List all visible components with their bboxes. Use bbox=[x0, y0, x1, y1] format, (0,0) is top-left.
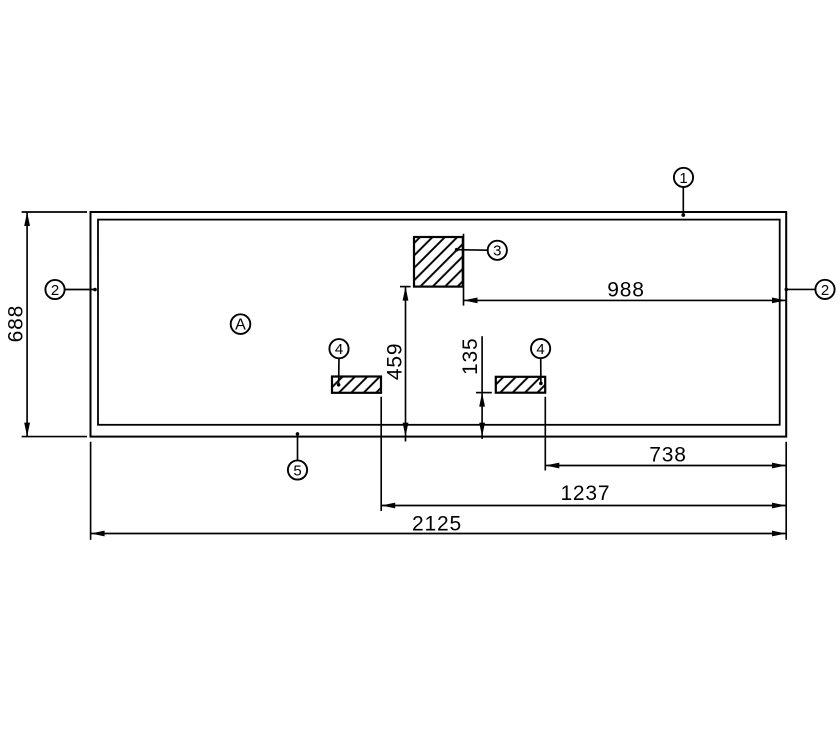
dimension 988 bbox=[464, 234, 787, 306]
dimension 459 bbox=[384, 287, 411, 442]
svg-text:2: 2 bbox=[821, 282, 829, 299]
hatched cutout item 4 left bbox=[332, 377, 381, 393]
dimension 135 bbox=[459, 336, 492, 439]
svg-text:5: 5 bbox=[293, 462, 301, 479]
balloon 2 left bbox=[45, 280, 96, 299]
balloon 3 bbox=[455, 241, 507, 260]
dimension 688 bbox=[4, 212, 87, 437]
svg-text:988: 988 bbox=[607, 278, 644, 301]
balloon 1 bbox=[674, 168, 693, 217]
svg-text:2125: 2125 bbox=[412, 512, 462, 535]
hatched cutout item 3 bbox=[414, 237, 463, 287]
balloon A bbox=[231, 314, 251, 334]
svg-text:1237: 1237 bbox=[560, 482, 610, 505]
balloon 4 right bbox=[531, 339, 550, 385]
hatched cutout item 4 right bbox=[496, 377, 545, 393]
panel outer frame bbox=[91, 212, 787, 437]
balloon 5 bbox=[288, 432, 307, 480]
svg-text:738: 738 bbox=[649, 444, 686, 467]
dimension 1237 bbox=[381, 397, 786, 511]
dimension 2125 bbox=[91, 442, 787, 540]
svg-text:4: 4 bbox=[335, 341, 343, 358]
svg-text:4: 4 bbox=[536, 341, 544, 358]
svg-text:3: 3 bbox=[493, 243, 501, 260]
svg-text:135: 135 bbox=[459, 338, 482, 375]
svg-text:459: 459 bbox=[384, 343, 407, 380]
svg-text:2: 2 bbox=[51, 282, 59, 299]
svg-text:688: 688 bbox=[4, 305, 27, 342]
svg-text:A: A bbox=[235, 317, 246, 334]
dimension 738 bbox=[545, 397, 786, 471]
balloon 2 right bbox=[785, 280, 835, 299]
balloon 4 left bbox=[329, 339, 348, 387]
panel inner frame bbox=[98, 220, 780, 425]
svg-text:1: 1 bbox=[679, 170, 687, 187]
